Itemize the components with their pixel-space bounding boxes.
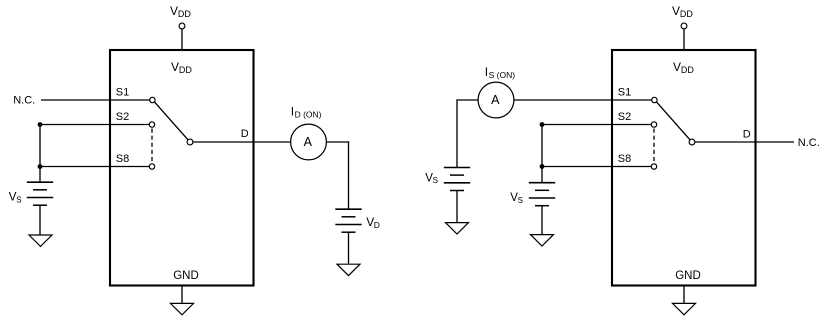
wire VS battery to ground (left) bbox=[39, 205, 41, 234]
power terminal VDD circle (right) bbox=[681, 23, 687, 29]
battery VS (right S branch) bbox=[529, 183, 555, 206]
pin circle S8 (left) bbox=[149, 164, 154, 169]
wire ammeter to S1 (right) bbox=[514, 99, 652, 101]
label VDD inside box (left) bbox=[171, 60, 192, 75]
wire S8 (right) bbox=[542, 166, 651, 168]
mux box U1 (left) bbox=[110, 50, 254, 286]
wire junction S2 to S8 (right) bbox=[541, 125, 543, 167]
svg-text:S8: S8 bbox=[116, 153, 129, 165]
wire VD battery to ground bbox=[348, 232, 350, 264]
ground symbol GND (left) bbox=[171, 303, 194, 314]
svg-text:GND: GND bbox=[173, 270, 199, 282]
wire ammeter to corner (left) bbox=[326, 141, 349, 143]
svg-text:V: V bbox=[672, 4, 680, 18]
wire VS battery to ground (ammeter branch) bbox=[456, 191, 458, 223]
wire GND stub (right) bbox=[683, 286, 685, 304]
switch arm (right) bbox=[657, 102, 690, 140]
label IS(ON) bbox=[485, 65, 515, 80]
ammeter A (left) bbox=[291, 124, 327, 160]
svg-text:S: S bbox=[433, 176, 438, 185]
wire N.C. to S1 (left) bbox=[41, 99, 150, 101]
svg-text:DD: DD bbox=[681, 65, 694, 75]
svg-text:D (ON): D (ON) bbox=[295, 109, 322, 119]
svg-text:N.C.: N.C. bbox=[798, 137, 820, 149]
svg-text:D: D bbox=[241, 128, 249, 140]
switch arm (left) bbox=[155, 102, 188, 140]
label ID(ON) bbox=[291, 104, 322, 119]
wire junction S2 to S8 (left) bbox=[39, 125, 41, 167]
svg-text:S2: S2 bbox=[116, 111, 129, 123]
ground symbol below VD bbox=[337, 264, 360, 275]
dashed link S2-S8 (right) bbox=[653, 129, 655, 163]
svg-text:GND: GND bbox=[675, 270, 701, 282]
ground symbol (right S branch) bbox=[531, 235, 554, 246]
label VS (ammeter branch) bbox=[425, 172, 438, 185]
switch pole circle (right) bbox=[689, 139, 695, 145]
svg-text:D: D bbox=[374, 220, 380, 230]
mux box U2 (right) bbox=[612, 50, 756, 286]
wire junction to VS battery (left) bbox=[39, 167, 41, 183]
svg-text:S1: S1 bbox=[116, 86, 129, 98]
wire S2 (left) bbox=[40, 124, 149, 126]
svg-text:V: V bbox=[170, 4, 178, 18]
junction dot S2 (right) bbox=[540, 122, 545, 127]
junction dot S8 (left) bbox=[38, 164, 43, 169]
wire D to ammeter (left) bbox=[193, 141, 291, 143]
power terminal VDD circle (left) bbox=[179, 23, 185, 29]
battery VD bbox=[335, 209, 361, 232]
wire VDD stub (left) bbox=[181, 29, 183, 50]
ammeter A (right) bbox=[478, 82, 514, 118]
label VDD above terminal (left) bbox=[170, 4, 191, 19]
pin circle S2 (left) bbox=[149, 122, 154, 127]
svg-text:DD: DD bbox=[680, 9, 693, 19]
wire corner down to VD battery bbox=[348, 141, 350, 209]
label VDD inside box (right) bbox=[673, 60, 694, 75]
switch pole circle (left) bbox=[187, 139, 193, 145]
svg-text:D: D bbox=[743, 128, 751, 140]
pin circle S8 (right) bbox=[651, 164, 656, 169]
svg-text:V: V bbox=[171, 60, 179, 74]
wire S2 (right) bbox=[542, 124, 651, 126]
label VDD above terminal (right) bbox=[672, 4, 693, 19]
pin circle S2 (right) bbox=[651, 122, 656, 127]
svg-text:N.C.: N.C. bbox=[13, 95, 35, 107]
svg-text:S: S bbox=[16, 195, 21, 204]
wire junction to VS battery (right) bbox=[541, 167, 543, 183]
dashed link S2-S8 (left) bbox=[151, 129, 153, 163]
svg-text:S8: S8 bbox=[618, 153, 631, 165]
wire VS battery to ground (right S branch) bbox=[541, 206, 543, 235]
svg-text:S (ON): S (ON) bbox=[489, 70, 516, 80]
label VD bbox=[366, 215, 380, 230]
wire D to N.C. (right) bbox=[695, 141, 794, 143]
svg-text:A: A bbox=[304, 135, 313, 149]
label VS (right S branch) bbox=[510, 192, 523, 205]
ground symbol (ammeter branch) bbox=[446, 223, 469, 234]
svg-text:S2: S2 bbox=[618, 111, 631, 123]
svg-text:S1: S1 bbox=[618, 86, 631, 98]
wire ammeter left to corner (right) bbox=[457, 99, 478, 101]
svg-text:V: V bbox=[673, 60, 681, 74]
svg-text:A: A bbox=[491, 93, 500, 107]
svg-text:DD: DD bbox=[178, 9, 191, 19]
junction dot S2 (left) bbox=[38, 122, 43, 127]
pin circle S1 (left) bbox=[150, 97, 155, 102]
svg-text:DD: DD bbox=[179, 65, 192, 75]
wire VDD stub (right) bbox=[683, 29, 685, 50]
junction dot S8 (right) bbox=[540, 164, 545, 169]
wire corner down to VS battery (ammeter branch) bbox=[456, 99, 458, 167]
battery VS (left) bbox=[27, 182, 53, 205]
pin circle S1 (right) bbox=[652, 97, 657, 102]
label VS (left) bbox=[9, 192, 22, 205]
ground symbol below VS (left) bbox=[29, 235, 52, 246]
wire GND stub (left) bbox=[181, 286, 183, 304]
battery VS (ammeter branch) bbox=[444, 168, 470, 191]
svg-text:S: S bbox=[518, 196, 523, 205]
ground symbol GND (right) bbox=[673, 303, 696, 314]
wire S8 (left) bbox=[40, 166, 149, 168]
